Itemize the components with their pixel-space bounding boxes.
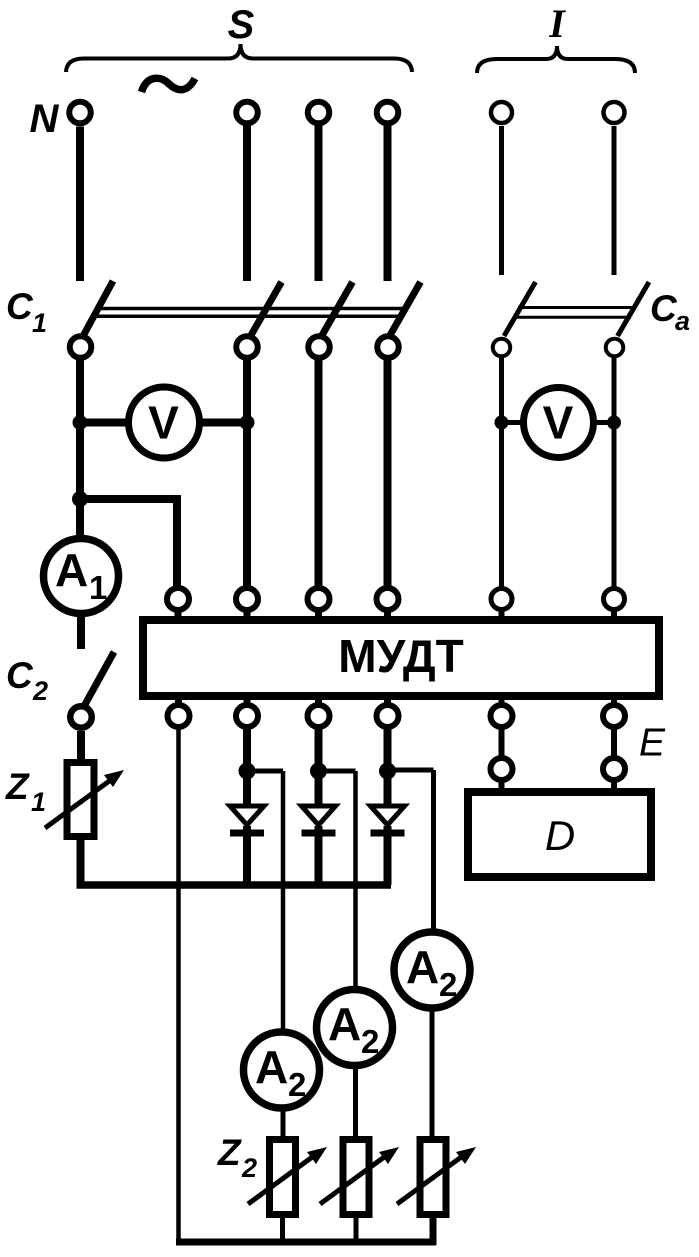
branch wire col4	[388, 768, 434, 773]
wire pole6 down	[612, 358, 617, 590]
svg-text:S: S	[228, 3, 255, 47]
wire diode col4 upper	[384, 727, 392, 806]
resistor Z2 first	[270, 1140, 296, 1215]
terminal below switch pole1	[70, 336, 92, 358]
MUDT bottom terminal 5	[491, 705, 513, 727]
svg-text:МУДТ: МУДТ	[338, 630, 463, 682]
C1 linkage line upper	[100, 307, 404, 311]
terminal below switch pole5	[493, 339, 511, 357]
wire I1 down	[499, 126, 504, 275]
terminal I1 top	[491, 102, 512, 123]
svg-text:V: V	[148, 397, 179, 449]
wire Z1 to bus	[77, 840, 85, 885]
bypass wire 1 vertical	[281, 771, 286, 1033]
stub E col5	[499, 779, 505, 789]
MUDT bottom terminal 2	[236, 705, 258, 727]
stub b6	[611, 699, 617, 706]
ammeter A2 second	[317, 990, 393, 1066]
label C2	[6, 655, 48, 706]
wire pole1 to V row	[76, 360, 84, 536]
svg-text:E: E	[639, 722, 666, 765]
wire pole5 down	[499, 358, 504, 590]
wire below A2 third	[430, 1008, 435, 1139]
label C1	[6, 286, 47, 338]
wire V right meter right	[593, 420, 614, 425]
junction dot col4	[379, 763, 396, 780]
switch Ca blade pole6	[618, 282, 650, 336]
MUDT top terminal 5	[491, 589, 512, 610]
wire V right meter left	[502, 420, 525, 425]
wire N down	[76, 127, 84, 282]
resistor Z2 second	[343, 1140, 369, 1215]
stub 3	[315, 609, 322, 617]
MUDT bottom terminal 1	[168, 705, 190, 727]
wire diode col3 lower	[315, 826, 323, 885]
svg-text:2: 2	[361, 1023, 379, 1060]
svg-text:A: A	[55, 544, 88, 596]
wire Z2 third to bus	[430, 1218, 437, 1245]
svg-text:1: 1	[31, 787, 46, 817]
block MUDT	[143, 620, 659, 696]
wire E col6	[611, 727, 617, 758]
svg-text:Z: Z	[5, 766, 30, 807]
terminal E col5	[491, 758, 513, 780]
terminal below switch pole2	[236, 336, 258, 358]
wire phase2 down	[243, 126, 251, 282]
stub 1	[175, 609, 182, 617]
terminal phase3 top	[308, 102, 330, 124]
switch blade pole3	[321, 282, 353, 337]
stub b5	[499, 699, 505, 706]
diode D3	[302, 806, 336, 833]
wire diode col2 upper	[243, 727, 251, 806]
brace S	[66, 44, 412, 72]
svg-text:1: 1	[89, 569, 107, 606]
voltmeter V right	[524, 388, 594, 458]
wire Z2 second to bus	[354, 1218, 359, 1242]
switch Ca blade pole5	[504, 282, 536, 336]
wire pole2 down	[243, 360, 251, 589]
junction dot	[495, 416, 509, 430]
terminal below switch pole6	[606, 339, 624, 357]
svg-text:C: C	[6, 286, 34, 327]
MUDT top terminal 1	[167, 588, 189, 610]
brace I	[477, 46, 635, 73]
wire pole4 down	[384, 360, 392, 589]
svg-text:a: a	[675, 306, 690, 336]
stub b1	[175, 699, 182, 706]
svg-text:D: D	[545, 812, 575, 859]
Z1 arrow	[45, 779, 112, 828]
wire V right	[200, 419, 247, 427]
MUDT bottom terminal 4	[377, 705, 399, 727]
svg-text:2: 2	[288, 1066, 306, 1103]
MUDT top terminal 2	[236, 588, 258, 610]
Z2 third arrow	[397, 1155, 464, 1204]
svg-text:I: I	[548, 1, 566, 46]
svg-text:C: C	[6, 655, 34, 696]
branch wire col2	[247, 769, 283, 774]
block D	[468, 792, 651, 877]
terminal I2 top	[604, 102, 625, 123]
switch blade pole4	[389, 282, 421, 337]
svg-text:1: 1	[32, 308, 47, 338]
svg-text:A: A	[406, 941, 439, 993]
Ca linkage line lower	[515, 316, 631, 319]
branch wire col3	[319, 769, 356, 774]
junction dot	[240, 415, 255, 430]
junction dot	[73, 415, 88, 430]
ammeter A2 first	[244, 1032, 320, 1108]
stub 2	[244, 609, 251, 617]
wire branch horizontal	[80, 495, 178, 503]
stub b3	[315, 699, 322, 706]
stub 5	[499, 609, 505, 617]
wire phase4 down	[384, 126, 392, 282]
switch C2 blade	[83, 652, 114, 708]
stub 4	[384, 609, 391, 617]
wire below A2 first	[281, 1108, 286, 1139]
svg-text:2: 2	[32, 676, 48, 706]
wire branch vertical	[173, 495, 181, 589]
bypass wire 2 vertical	[353, 771, 358, 990]
Z2 second arrow	[320, 1155, 387, 1204]
diode D4	[371, 806, 405, 833]
wire A1 to C2	[77, 614, 85, 649]
MUDT top terminal 4	[377, 588, 399, 610]
wire Z2 first to bus	[280, 1218, 285, 1242]
wire return column	[176, 727, 181, 1242]
ammeter A2 third	[394, 932, 470, 1008]
label Z2	[217, 1132, 257, 1183]
diode D2	[230, 806, 264, 833]
terminal phase2 top	[236, 102, 258, 124]
MUDT bottom terminal 6	[603, 705, 625, 727]
bus wire bottom	[176, 1239, 436, 1246]
svg-text:V: V	[543, 397, 574, 449]
terminal below switch pole3	[308, 336, 330, 358]
junction dot col2	[239, 763, 256, 780]
wire C2 to Z1	[77, 731, 85, 762]
resistor Z2 third	[420, 1140, 446, 1215]
stub 6	[611, 609, 617, 617]
stub E col6	[611, 779, 617, 789]
MUDT top terminal 6	[604, 589, 625, 610]
stub b2	[244, 699, 251, 706]
AC tilde	[142, 78, 196, 92]
terminal phase4 top	[377, 102, 399, 124]
terminal E col6	[603, 758, 625, 780]
switch C1 blade pole1	[82, 281, 113, 338]
resistor Z1	[67, 763, 94, 837]
C1 linkage line lower	[97, 314, 401, 318]
junction dot	[607, 416, 621, 430]
label Z1	[5, 766, 46, 817]
wire diode col3 upper	[315, 727, 323, 806]
svg-text:A: A	[255, 1041, 288, 1093]
wire below A2 second	[353, 1065, 358, 1139]
Z2 first arrow	[248, 1155, 315, 1204]
bus wire bottom left	[77, 881, 392, 889]
label Ca	[650, 288, 690, 336]
svg-text:C: C	[650, 288, 678, 329]
svg-text:N: N	[30, 97, 60, 141]
wire pole3 down	[315, 360, 323, 589]
terminal C2	[70, 706, 92, 728]
svg-text:Z: Z	[217, 1132, 242, 1173]
bypass wire 3 vertical	[431, 770, 436, 932]
Ca linkage line upper	[518, 306, 634, 309]
switch blade pole2	[250, 282, 282, 337]
svg-text:A: A	[328, 998, 361, 1050]
MUDT bottom terminal 3	[308, 705, 330, 727]
junction dot A1 branch	[72, 491, 88, 507]
wire V left	[80, 419, 128, 427]
junction dot col3	[310, 763, 327, 780]
wire E col5	[499, 727, 505, 758]
voltmeter V left	[129, 387, 200, 458]
terminal below switch pole4	[377, 336, 399, 358]
wire diode col2 lower	[243, 826, 251, 885]
MUDT top terminal 3	[308, 588, 330, 610]
wire phase3 down	[315, 126, 323, 282]
terminal N top	[69, 102, 91, 124]
wire I2 down	[612, 126, 617, 275]
wire diode col4 lower	[384, 826, 392, 885]
ammeter A1	[44, 539, 119, 614]
svg-text:2: 2	[241, 1153, 257, 1183]
stub b4	[384, 699, 391, 706]
svg-text:2: 2	[439, 966, 457, 1003]
